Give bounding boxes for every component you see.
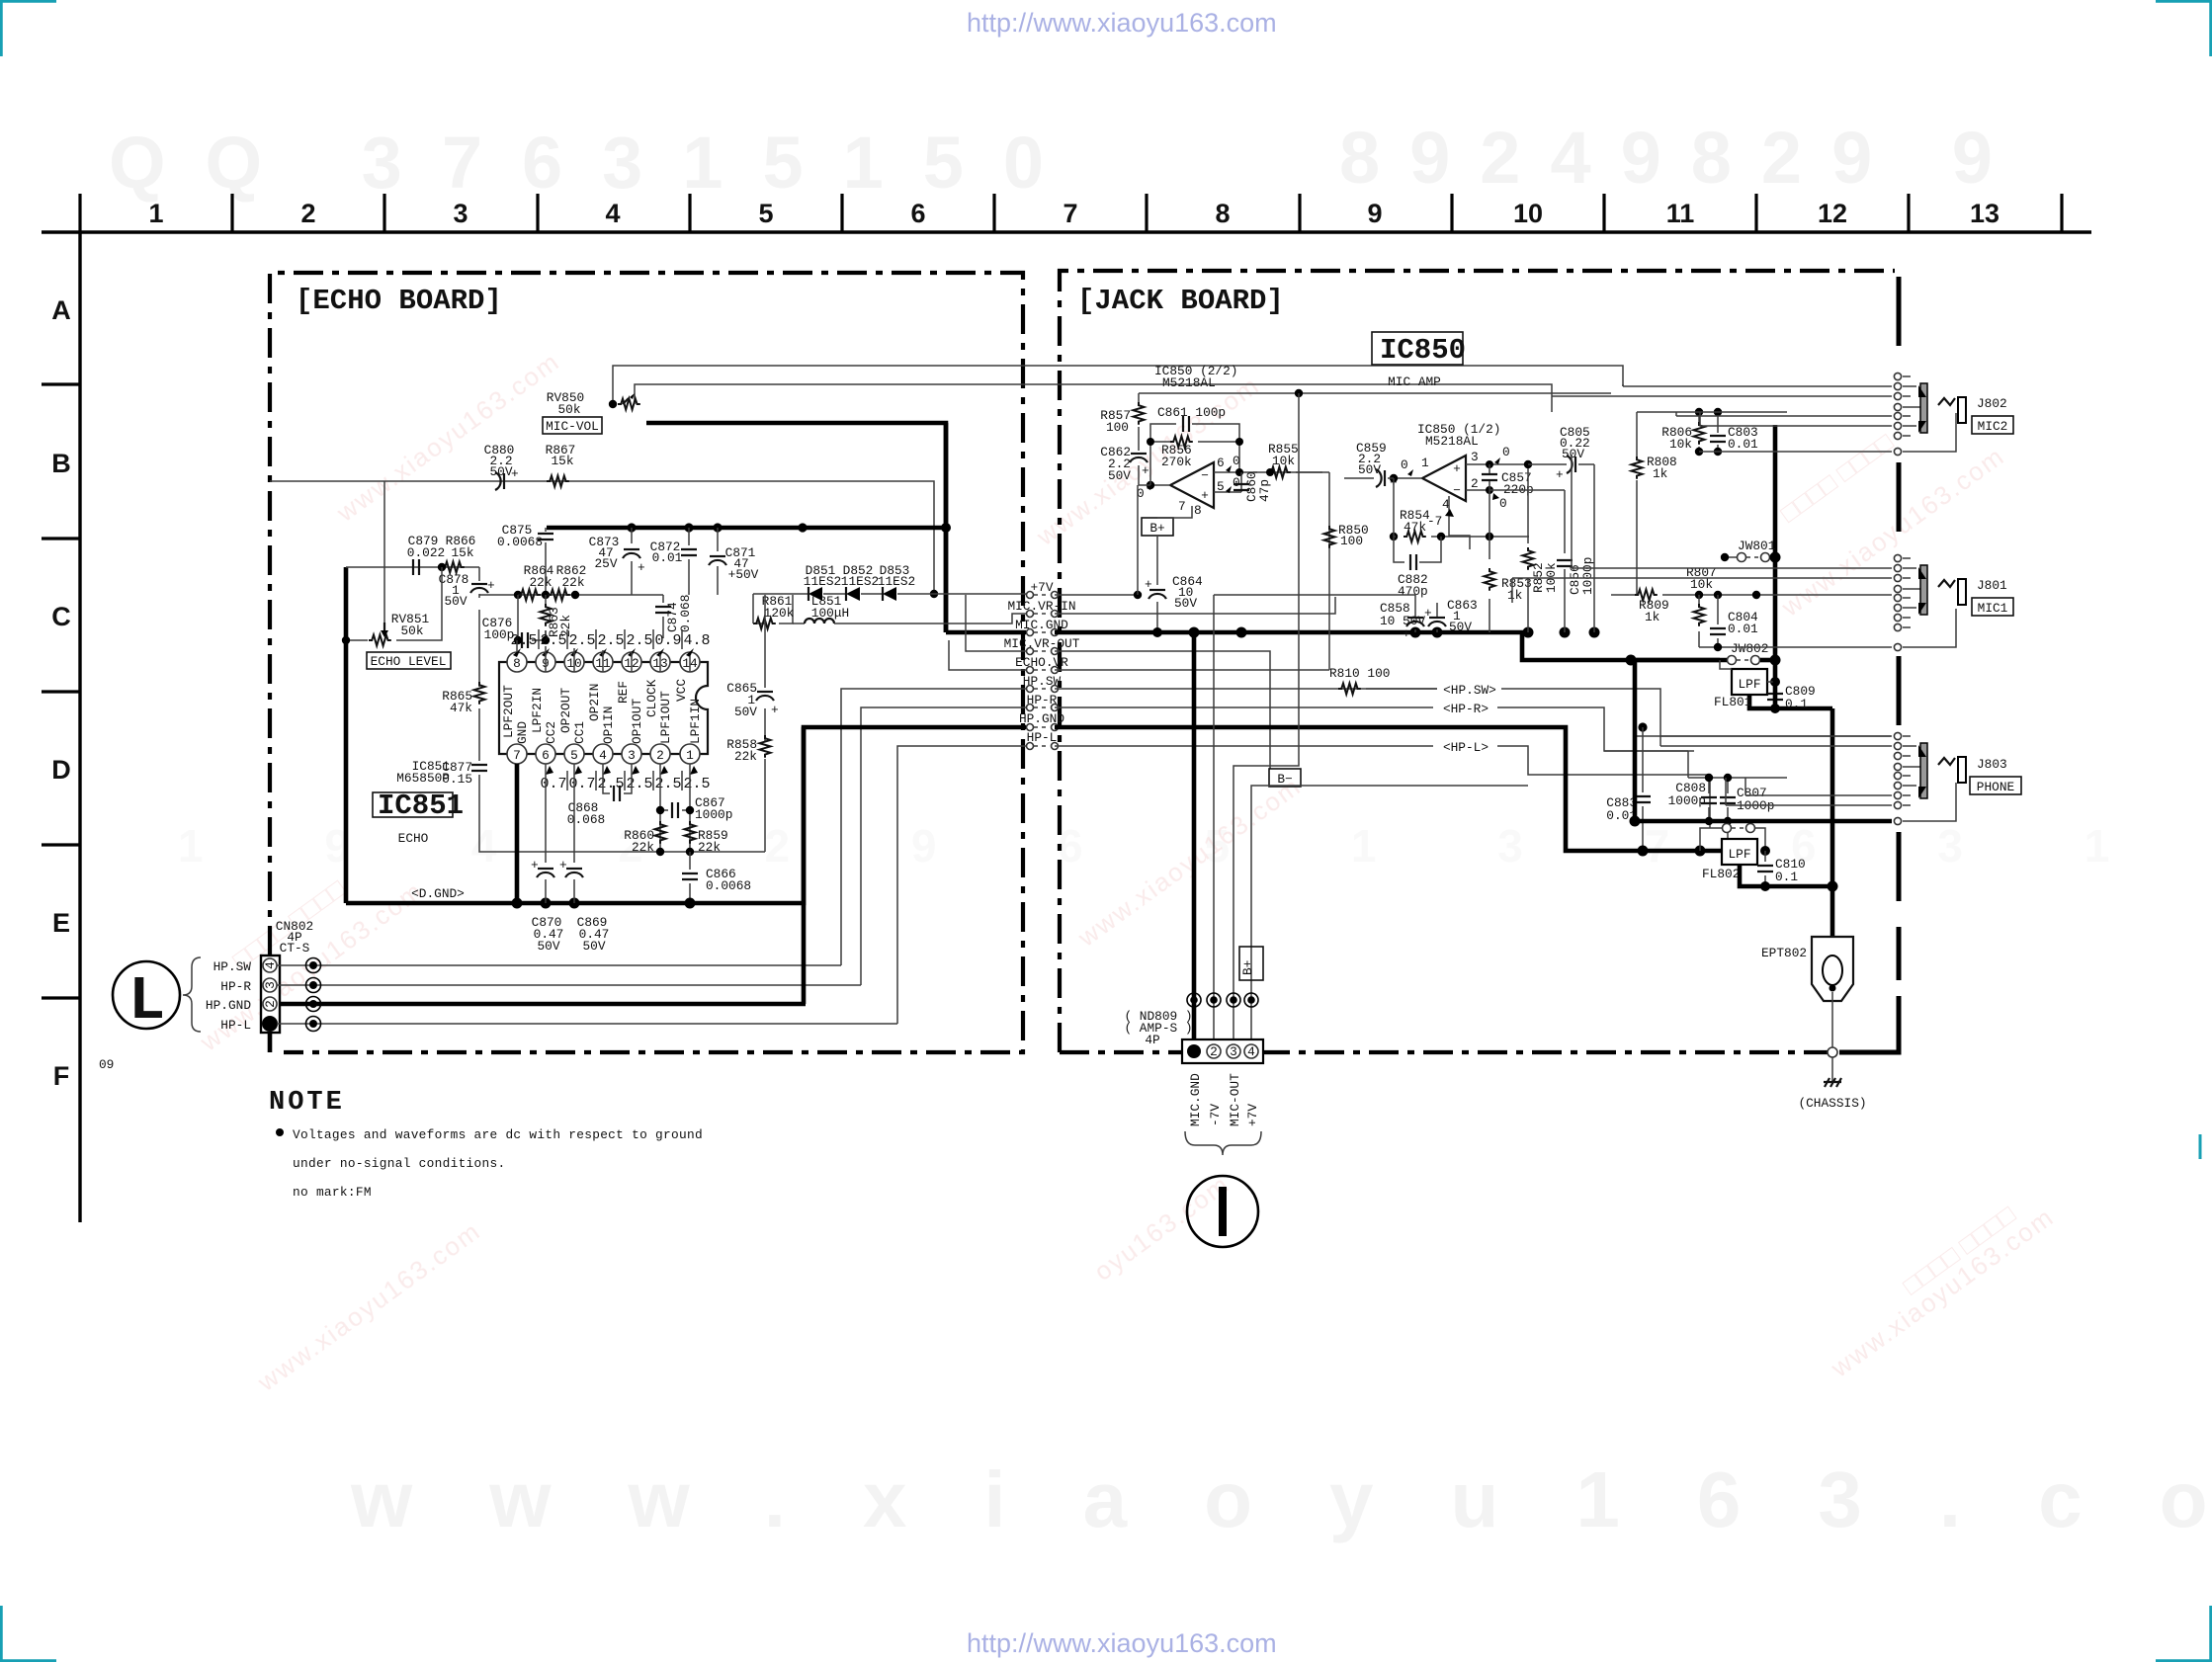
svg-text:6: 6 (542, 748, 550, 763)
svg-text:EPT802: EPT802 (1761, 946, 1807, 960)
resistor R865 vertical (478, 610, 480, 761)
resistor R866 (442, 562, 465, 573)
resistor R863 vertical (545, 595, 547, 640)
ND809 pin 2 (1207, 1044, 1221, 1058)
corner mark bottom-right (2156, 1606, 2211, 1661)
pin 10 (564, 652, 584, 672)
resistor R854 (1390, 533, 1398, 540)
resistor R808 vertical (1636, 412, 1638, 595)
blue edge tick right (2199, 1134, 2202, 1159)
capacitor C870 (545, 764, 547, 903)
svg-text:2.5: 2.5 (654, 776, 681, 792)
svg-text:11ES2: 11ES2 (804, 574, 841, 589)
ringed dot HP.GND (309, 1000, 317, 1008)
svg-text:7: 7 (513, 748, 521, 763)
svg-text:2: 2 (300, 199, 315, 228)
svg-text:IC851: IC851 (378, 789, 464, 822)
svg-text:+: + (1142, 463, 1149, 478)
svg-text:89249829 9: 89249829 9 (1339, 117, 2022, 199)
wire RV851 riser (383, 481, 385, 633)
svg-text:8: 8 (513, 656, 521, 671)
svg-text:47p: 47p (1257, 479, 1272, 502)
svg-text:OP2IN: OP2IN (587, 684, 602, 721)
svg-text:1k: 1k (1653, 466, 1668, 481)
capacitor C807 (1727, 778, 1729, 821)
svg-text:CC2: CC2 (544, 721, 558, 744)
svg-text:270k: 270k (1161, 455, 1192, 469)
ECHO BOARD INTERNALS (270, 366, 1623, 903)
capacitor C810 (1760, 846, 1770, 856)
CN802 pin 1 (262, 1016, 278, 1032)
wire diode row (753, 594, 1026, 595)
svg-text:CLOCK: CLOCK (644, 679, 659, 717)
resistor R855 (1253, 471, 1257, 473)
svg-text:<HP-L>: <HP-L> (1443, 740, 1489, 755)
pin 11 (593, 652, 613, 672)
svg-text:+: + (1424, 606, 1432, 621)
svg-text:C863: C863 (1447, 598, 1478, 613)
voltage arrows top (513, 648, 694, 657)
capacitor C875 (545, 528, 547, 595)
IC851 BLOCK (346, 595, 804, 954)
svg-text:1: 1 (1421, 456, 1429, 470)
thick ground stem vertical (1830, 708, 1835, 937)
svg-text:4: 4 (1247, 1044, 1255, 1059)
svg-text:−: − (1201, 468, 1209, 483)
capacitor C857 (1482, 474, 1497, 480)
resistor R864 (518, 590, 541, 601)
svg-text:50V: 50V (1449, 620, 1472, 634)
thick GND bottom rail (346, 727, 804, 903)
ringed dot ND809 w2 (1210, 996, 1218, 1004)
pin 14 (680, 652, 700, 672)
chassis ground (1831, 1057, 1833, 1082)
wire JW802 to FL801 (1720, 660, 1732, 669)
svg-text:OP1OUT: OP1OUT (630, 699, 644, 744)
capacitor C882 (1394, 537, 1441, 562)
svg-text:JW801: JW801 (1738, 539, 1776, 553)
svg-text:no mark:FM: no mark:FM (293, 1185, 372, 1200)
filter FL801 LPF box (1732, 669, 1767, 695)
svg-text:+: + (1403, 626, 1410, 641)
svg-text:LPF2OUT: LPF2OUT (501, 685, 516, 738)
capacitor C877 (471, 765, 487, 771)
svg-text:7: 7 (1178, 499, 1186, 514)
svg-text:15k: 15k (551, 454, 573, 468)
capacitor C803 (1717, 412, 1719, 452)
thick link sleeve row down (1633, 660, 1638, 821)
svg-text:11: 11 (1666, 199, 1695, 228)
svg-text:VCC: VCC (674, 679, 689, 702)
capacitor C876 (518, 595, 546, 640)
svg-text:LPF2IN: LPF2IN (530, 688, 545, 733)
capacitor C879 (413, 559, 419, 575)
wire MIC-OUT from op amp down to ND809 (1234, 393, 1299, 1041)
svg-text:0.068: 0.068 (567, 812, 605, 827)
resistor R867 (547, 476, 569, 487)
svg-text:+: + (511, 466, 519, 481)
jack board right edge heavy dashed (1897, 277, 1902, 980)
svg-text:5: 5 (570, 748, 578, 763)
capacitor C864 (1149, 590, 1166, 599)
capacitor C878 (478, 567, 480, 598)
svg-text:OP2OUT: OP2OUT (558, 688, 573, 733)
pin6 wire (1214, 471, 1322, 473)
wire C856 top joins pin2 row (1489, 489, 1565, 491)
svg-text:M5218AL: M5218AL (1425, 434, 1479, 449)
svg-text:+: + (487, 578, 495, 593)
svg-text:0.01: 0.01 (1728, 437, 1758, 452)
op-amp IC851 body (499, 662, 708, 754)
svg-text:2.5: 2.5 (626, 776, 652, 792)
svg-text:MIC-OUT: MIC-OUT (1228, 1073, 1242, 1126)
svg-text:http://www.xiaoyu163.com: http://www.xiaoyu163.com (967, 8, 1277, 38)
op-amp IC850 2/2 triangle (1170, 462, 1214, 508)
svg-text:www.xiaoyu163.com: www.xiaoyu163.com (350, 1455, 2212, 1543)
svg-text:50V: 50V (734, 705, 757, 719)
potentiometer RV851 (342, 567, 442, 646)
wire R855 to C859 via R850 (1328, 472, 1330, 670)
left border line (78, 232, 81, 1222)
svg-text:B−: B− (1277, 772, 1292, 787)
B- box (1269, 769, 1301, 787)
svg-text:C861 100p: C861 100p (1157, 405, 1226, 420)
svg-text:22k: 22k (561, 575, 584, 590)
svg-text:0.9: 0.9 (654, 632, 681, 649)
ND809 pin 3 (1227, 1044, 1240, 1058)
svg-text:ECHO LEVEL: ECHO LEVEL (371, 654, 447, 669)
svg-text:MIC.GND: MIC.GND (1188, 1073, 1203, 1126)
svg-text:A: A (51, 295, 71, 325)
thick stub to MIC.GND bus circle (946, 630, 1026, 635)
ND809 pin 4 (1244, 1044, 1258, 1058)
pin5 wire (1214, 491, 1241, 493)
svg-text:5: 5 (1217, 479, 1225, 494)
corner mark top-left (1, 1, 56, 56)
thick FL801 bottom wire (1749, 694, 1832, 708)
svg-text:J803: J803 (1977, 757, 2007, 772)
svg-text:4: 4 (599, 748, 607, 763)
pin 12 (622, 652, 641, 672)
svg-text:J801: J801 (1977, 578, 2007, 593)
svg-text:LPF: LPF (1738, 677, 1760, 692)
label box ECHO LEVEL (367, 652, 451, 669)
svg-text:50V: 50V (1174, 596, 1197, 611)
circled I destination (1187, 1176, 1258, 1247)
voltage separators bottom (567, 771, 682, 790)
pin 2 (650, 744, 670, 764)
capacitor C867 (660, 764, 690, 852)
svg-text:5: 5 (758, 199, 773, 228)
resistor R806 vertical (1698, 412, 1700, 452)
svg-text:6: 6 (1217, 456, 1225, 470)
diode D852 (846, 587, 860, 601)
svg-text:9: 9 (1367, 199, 1382, 228)
wire HP.GND rise thick (804, 727, 1026, 1004)
ringed dot ND809 w3 (1230, 996, 1237, 1004)
circled L destination (113, 961, 180, 1029)
svg-text:JW802: JW802 (1731, 641, 1768, 656)
wires J801 to left (1512, 568, 1892, 603)
wire HP-L rise to bus (897, 746, 1026, 1024)
svg-text:4: 4 (263, 961, 278, 969)
pin 7 (507, 744, 527, 764)
svg-text:1: 1 (148, 199, 163, 228)
svg-text:2.5: 2.5 (568, 632, 595, 649)
svg-text:B: B (51, 449, 71, 478)
svg-text:11ES2: 11ES2 (841, 574, 879, 589)
pin 13 (650, 652, 670, 672)
ringed dot ND809 w1 (1190, 996, 1198, 1004)
wire MIC.VR-OUT left stub (966, 595, 1026, 651)
wire R807 C804 bottom row to sleeve (1699, 646, 1892, 648)
svg-text:0.068: 0.068 (678, 595, 693, 632)
ruler ticks (80, 194, 2062, 232)
rotated B+ box (1239, 947, 1263, 980)
resistor R852 vertical rotated label (1527, 464, 1529, 632)
svg-text:MIC2: MIC2 (1978, 419, 2008, 434)
capacitor C869 (573, 764, 575, 903)
capacitor C865 (756, 692, 774, 701)
wire pins top stubs up (516, 640, 518, 652)
thick MIC.GND to ND809 (1192, 632, 1197, 1041)
wire R864 R862 row (479, 594, 663, 596)
resistor R850 vertical (1324, 526, 1335, 548)
svg-text:+: + (559, 858, 567, 873)
thick wire left vertical to D.GND (344, 567, 349, 903)
svg-text:7: 7 (1063, 199, 1077, 228)
svg-text:[JACK BOARD]: [JACK BOARD] (1077, 285, 1284, 317)
svg-text:10k: 10k (1669, 437, 1692, 452)
wire C805 down right side (1593, 464, 1595, 632)
svg-text:0.1: 0.1 (1775, 870, 1798, 884)
jack board outline left/top/bottom (1060, 271, 1895, 1052)
JACK BOARD MIC AMP AREA (949, 332, 1731, 769)
wire RV850 lower to jack area (635, 384, 1552, 404)
row letters (51, 295, 71, 1091)
svg-text:50V: 50V (1562, 447, 1584, 461)
wire EPT802 to chassis (1831, 992, 1833, 1048)
pin3 wire (1466, 463, 1528, 465)
svg-text:3: 3 (1471, 450, 1479, 464)
resistor R810 (1338, 684, 1361, 695)
svg-text:under no-signal conditions.: under no-signal conditions. (293, 1156, 505, 1171)
capacitor C808 (1708, 778, 1710, 821)
wire op-amp power to B+ (1157, 506, 1192, 585)
svg-text:CT-S: CT-S (280, 941, 310, 956)
svg-text:MIC-VOL: MIC-VOL (546, 419, 599, 434)
INTERBOARD BUS (1004, 580, 1080, 750)
svg-text:+: + (1201, 488, 1209, 503)
svg-text:B+: B+ (1240, 960, 1255, 975)
svg-text:1000p: 1000p (1668, 793, 1706, 808)
svg-text:+50V: +50V (728, 567, 759, 582)
svg-text:47k: 47k (1404, 520, 1426, 535)
wire R806 C803 top row (1637, 411, 1787, 413)
label box MIC-VOL (543, 417, 602, 434)
svg-text:HP.GND: HP.GND (1019, 711, 1064, 726)
label box PHONE (1970, 777, 2021, 794)
svg-text:50k: 50k (557, 402, 580, 417)
wire HP-R to C808 C807 and phone ring (1604, 751, 1787, 778)
svg-text:1000p: 1000p (1580, 557, 1595, 595)
diode D851 (808, 587, 822, 601)
wire +7V to ND809 (1251, 786, 1528, 1041)
jack J803 body (1903, 736, 1956, 821)
svg-text:22k: 22k (734, 749, 757, 764)
svg-text:<HP.SW>: <HP.SW> (1443, 683, 1496, 698)
capacitor C809 (1770, 677, 1780, 687)
jack board right edge bottom corner (1839, 996, 1899, 1052)
resistor R860 vertical (655, 821, 666, 844)
ringed dot ND809 w4 (1247, 996, 1255, 1004)
svg-text:D: D (51, 755, 71, 785)
wire pins 9,10 drop (546, 646, 690, 672)
pin 3 (622, 744, 641, 764)
svg-text:0: 0 (1401, 457, 1408, 472)
output node 1/2 (1394, 477, 1422, 479)
CN802 AND NOTE AREA (99, 689, 1026, 1200)
svg-text:MIC AMP: MIC AMP (1388, 374, 1441, 389)
svg-text:2.5: 2.5 (540, 632, 566, 649)
capacitor C804 (1717, 595, 1719, 647)
inductor L851 (793, 623, 805, 624)
thick top rail over IC851 (547, 526, 946, 531)
thick MIC.GND rail jack side (1055, 632, 1731, 660)
capacitor C873 (631, 528, 633, 595)
svg-text:ECHO: ECHO (398, 831, 429, 846)
jack J801 body (1903, 558, 1956, 647)
wire HP.SW rise to bus (841, 689, 1026, 965)
row ticks left (42, 384, 80, 998)
thick jack ground vertical (1773, 425, 1778, 708)
svg-text:2.5: 2.5 (683, 776, 710, 792)
corner mark top-right (2156, 1, 2211, 56)
svg-text:GND: GND (515, 721, 530, 744)
svg-text:ECHO.VR: ECHO.VR (1015, 655, 1068, 670)
svg-text:PHONE: PHONE (1977, 780, 2015, 794)
pin 9 (536, 652, 555, 672)
op-amp IC850 1/2 triangle (1422, 456, 1466, 501)
ringed dot HP-L (309, 1020, 317, 1028)
svg-text:+: + (1145, 577, 1152, 592)
connector ND809 body (1182, 1039, 1263, 1063)
B+ box (1142, 518, 1173, 536)
svg-text:+: + (531, 858, 539, 873)
capacitor C874 vertical (662, 595, 664, 638)
resistor R859 vertical (685, 821, 696, 844)
pin 5 (564, 744, 584, 764)
svg-text:(CHASSIS): (CHASSIS) (1798, 1096, 1866, 1111)
svg-text:120k: 120k (764, 606, 795, 621)
svg-text:0.01: 0.01 (652, 550, 683, 565)
feedback loop C861 (1150, 424, 1239, 485)
junction dots on top rail (627, 523, 636, 532)
pin2 wire (1466, 489, 1489, 491)
svg-text:MIC.VR-OUT: MIC.VR-OUT (1004, 636, 1080, 651)
wire FL802 bottom to ground stem (1740, 865, 1832, 886)
pin 6 (536, 744, 555, 764)
capacitor C872 (688, 528, 690, 595)
junction dots row (514, 591, 522, 599)
echo board outline (270, 273, 1023, 1052)
ruler numbers (148, 199, 1999, 228)
thick wire RV850 wiper down to MIC.GND rail (646, 423, 946, 632)
capacitor C866 (689, 852, 691, 901)
svg-text:22k: 22k (529, 575, 552, 590)
svg-text:HP.GND: HP.GND (206, 998, 251, 1013)
jack J803 contacts (1894, 732, 1901, 824)
capacitor C883 (1638, 722, 1647, 731)
wire R806 C803 bottom to jack sleeve (1695, 448, 1703, 456)
thick HP.GND to FL802 (1055, 727, 1723, 851)
svg-text:2: 2 (263, 1000, 278, 1008)
svg-text:LPF1OUT: LPF1OUT (658, 691, 673, 744)
svg-text:2: 2 (1471, 476, 1479, 491)
svg-text:50V: 50V (444, 594, 467, 609)
thick rail down to MIC.GND row (944, 423, 949, 632)
svg-text:25V: 25V (594, 556, 617, 571)
svg-text:R810 100: R810 100 (1329, 666, 1390, 681)
note bullet line 1 (276, 1128, 284, 1136)
svg-text:10k: 10k (1272, 454, 1295, 468)
wire HP-L run (277, 1023, 897, 1025)
wire HP.SW run (277, 964, 841, 966)
svg-text:−: − (1453, 483, 1461, 498)
capacitor C862 (1138, 437, 1140, 451)
svg-text:E: E (52, 908, 70, 938)
label box MIC1 (1972, 598, 2013, 616)
resistor R862 (548, 590, 570, 601)
svg-text:F: F (53, 1061, 70, 1091)
diode D853 (883, 587, 896, 601)
wire C879 R866 row (346, 566, 479, 568)
svg-text:1: 1 (686, 748, 694, 763)
svg-text:M5218AL: M5218AL (1162, 375, 1216, 390)
capacitor C859 (1344, 477, 1374, 479)
svg-text:MIC1: MIC1 (1978, 601, 2008, 616)
svg-text:HP-L: HP-L (220, 1018, 251, 1033)
svg-text:8: 8 (1194, 503, 1202, 518)
potentiometer RV850 (609, 393, 640, 410)
svg-text:50V: 50V (537, 939, 559, 954)
JACK BOARD RIGHT SIDE (1055, 373, 2021, 1247)
label box IC851 (373, 792, 453, 817)
pin 4 (593, 744, 613, 764)
svg-text:0: 0 (1233, 475, 1240, 490)
svg-text:0.7: 0.7 (568, 776, 595, 792)
svg-text:M65850P: M65850P (396, 771, 450, 786)
pin 8 (507, 652, 527, 672)
svg-text:470p: 470p (1398, 584, 1428, 599)
svg-text:100: 100 (1340, 534, 1363, 548)
svg-text:4P: 4P (1145, 1033, 1159, 1047)
thick ground row to J803 sleeve (1698, 849, 1703, 854)
svg-text:0: 0 (1499, 496, 1507, 511)
wire HP-R run (277, 984, 861, 986)
resistor R807 vertical (1694, 604, 1705, 626)
svg-text:09: 09 (99, 1057, 114, 1072)
svg-text:FL802: FL802 (1702, 867, 1740, 881)
svg-text:1000p: 1000p (695, 807, 732, 822)
svg-text:J802: J802 (1977, 396, 2007, 411)
capacitor C805 (1524, 460, 1532, 468)
wire -7V vertical (1213, 595, 1215, 1041)
thick wire J803 sleeve row (1635, 819, 1892, 824)
jack J802 contacts (1894, 373, 1901, 455)
svg-text:+7V: +7V (1030, 580, 1053, 595)
svg-text:0.0068: 0.0068 (706, 878, 751, 893)
